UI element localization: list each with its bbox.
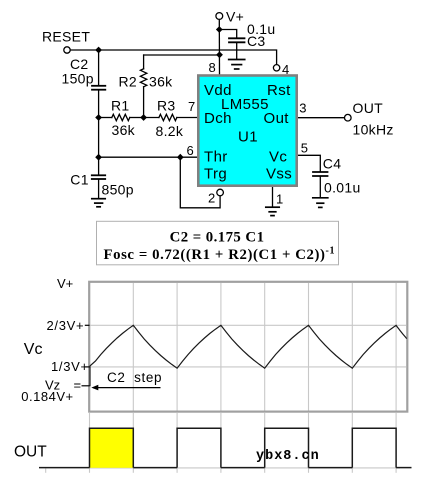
- capacitor C3: [219, 30, 244, 60]
- svg-text:8: 8: [209, 60, 216, 75]
- Vc plot horizontal gridlines: [90, 325, 406, 367]
- capacitor C1: [92, 157, 105, 198]
- terminal pin 4: [273, 65, 279, 71]
- svg-text:ybx8.cn: ybx8.cn: [256, 449, 320, 464]
- svg-text:0.184V+: 0.184V+: [21, 389, 73, 404]
- svg-text:C2 step: C2 step: [107, 370, 162, 385]
- svg-text:OUT: OUT: [353, 100, 384, 116]
- op-amp U1 LM555 chip body: [198, 76, 296, 186]
- OUT pulse 1 (yellow): [90, 428, 134, 468]
- svg-text:C2 = 0.175 C1: C2 = 0.175 C1: [170, 230, 265, 246]
- svg-text:RESET: RESET: [42, 28, 90, 44]
- svg-text:2/3V+: 2/3V+: [47, 318, 85, 333]
- svg-text:3: 3: [299, 100, 306, 115]
- resistor R3: [144, 114, 198, 120]
- svg-text:0.01u: 0.01u: [324, 179, 361, 195]
- svg-text:Vss: Vss: [266, 166, 292, 183]
- tick Vz level: [82, 385, 90, 387]
- wire node E to pin 2: [180, 157, 220, 208]
- svg-text:Vc: Vc: [24, 341, 43, 358]
- svg-text:7: 7: [188, 99, 195, 114]
- node E junction dot: [177, 154, 184, 161]
- capacitor C4: [313, 172, 328, 197]
- node A junction dot: [95, 47, 102, 54]
- svg-text:R3: R3: [157, 97, 176, 113]
- tick 2/3V+: [85, 324, 90, 326]
- svg-text:850p: 850p: [102, 181, 134, 197]
- terminal RESET: [64, 47, 70, 53]
- svg-text:8.2k: 8.2k: [156, 123, 184, 139]
- svg-text:2: 2: [208, 191, 215, 206]
- svg-text:Rst: Rst: [267, 82, 291, 99]
- svg-text:4: 4: [282, 62, 289, 77]
- svg-text:V+: V+: [57, 276, 73, 291]
- terminal V+: [216, 13, 223, 20]
- svg-text:Vc: Vc: [269, 149, 287, 166]
- wire rail to pin 6: [99, 156, 198, 158]
- terminal OUT: [345, 114, 352, 121]
- svg-text:=: =: [74, 378, 82, 393]
- Vc waveform: [90, 325, 407, 386]
- resistor R2: [140, 55, 146, 118]
- svg-text:6: 6: [187, 143, 194, 158]
- svg-text:C1: C1: [70, 171, 89, 187]
- svg-text:OUT: OUT: [14, 443, 47, 460]
- wire R2 top to V+ node: [144, 54, 220, 56]
- svg-text:V+: V+: [226, 8, 244, 24]
- OUT pulse 4: [352, 428, 396, 467]
- node B junction dot: [95, 114, 102, 121]
- wire V+ down to Vdd pin 8: [218, 20, 220, 75]
- svg-text:Thr: Thr: [204, 149, 228, 166]
- wire pin 5 to C4: [298, 155, 320, 171]
- node V+ junction dot: [216, 26, 223, 33]
- ground for C1: [92, 199, 105, 207]
- node C junction dot: [140, 114, 147, 121]
- svg-text:1/3V+: 1/3V+: [51, 359, 89, 374]
- tick 1/3V+: [85, 366, 90, 368]
- node Vdd junction dot: [216, 51, 223, 58]
- svg-text:36k: 36k: [149, 74, 173, 90]
- svg-text:R1: R1: [111, 97, 130, 113]
- arrow C2 step: [91, 385, 160, 391]
- Vc plot vertical gridlines: [133, 283, 396, 411]
- svg-text:Fosc = 0.72((R1 + R2)(C1 + C2): Fosc = 0.72((R1 + R2)(C1 + C2))-1: [104, 245, 336, 263]
- OUT pulse 2: [177, 428, 221, 467]
- svg-text:10kHz: 10kHz: [353, 122, 394, 138]
- ground for C3: [229, 60, 245, 70]
- svg-text:5: 5: [301, 141, 308, 156]
- svg-text:U1: U1: [238, 129, 258, 146]
- svg-text:C3: C3: [247, 33, 266, 49]
- OUT light baseline under pulses: [90, 467, 401, 469]
- capacitor C2: [92, 50, 105, 118]
- terminal pin 2: [217, 189, 224, 196]
- wire pin 1 to ground: [272, 188, 274, 207]
- OUT baseline segments: [39, 467, 412, 469]
- resistor R1: [99, 114, 144, 120]
- wire node A to pin 4: [99, 50, 277, 64]
- svg-text:Dch: Dch: [204, 110, 232, 127]
- formula box: [97, 221, 339, 264]
- svg-text:150p: 150p: [62, 71, 94, 87]
- svg-text:36k: 36k: [112, 122, 136, 138]
- OUT pulse 3: [265, 428, 309, 467]
- svg-text:C4: C4: [323, 155, 342, 171]
- wire RESET to node A: [70, 49, 98, 51]
- Vc plot frame: [89, 282, 407, 412]
- ground for C4: [313, 198, 328, 208]
- ground for pin 1: [266, 207, 279, 215]
- svg-text:R2: R2: [119, 74, 138, 90]
- wire pin 3 to OUT: [298, 117, 344, 119]
- OUT gridline segments above pulses: [90, 413, 397, 428]
- wire node B down to node D: [98, 118, 100, 158]
- svg-text:Trg: Trg: [204, 166, 227, 183]
- OUT gridline ticks below baseline: [46, 469, 396, 473]
- svg-text:1: 1: [276, 191, 283, 206]
- node D junction dot: [95, 154, 102, 161]
- svg-text:Out: Out: [264, 110, 290, 127]
